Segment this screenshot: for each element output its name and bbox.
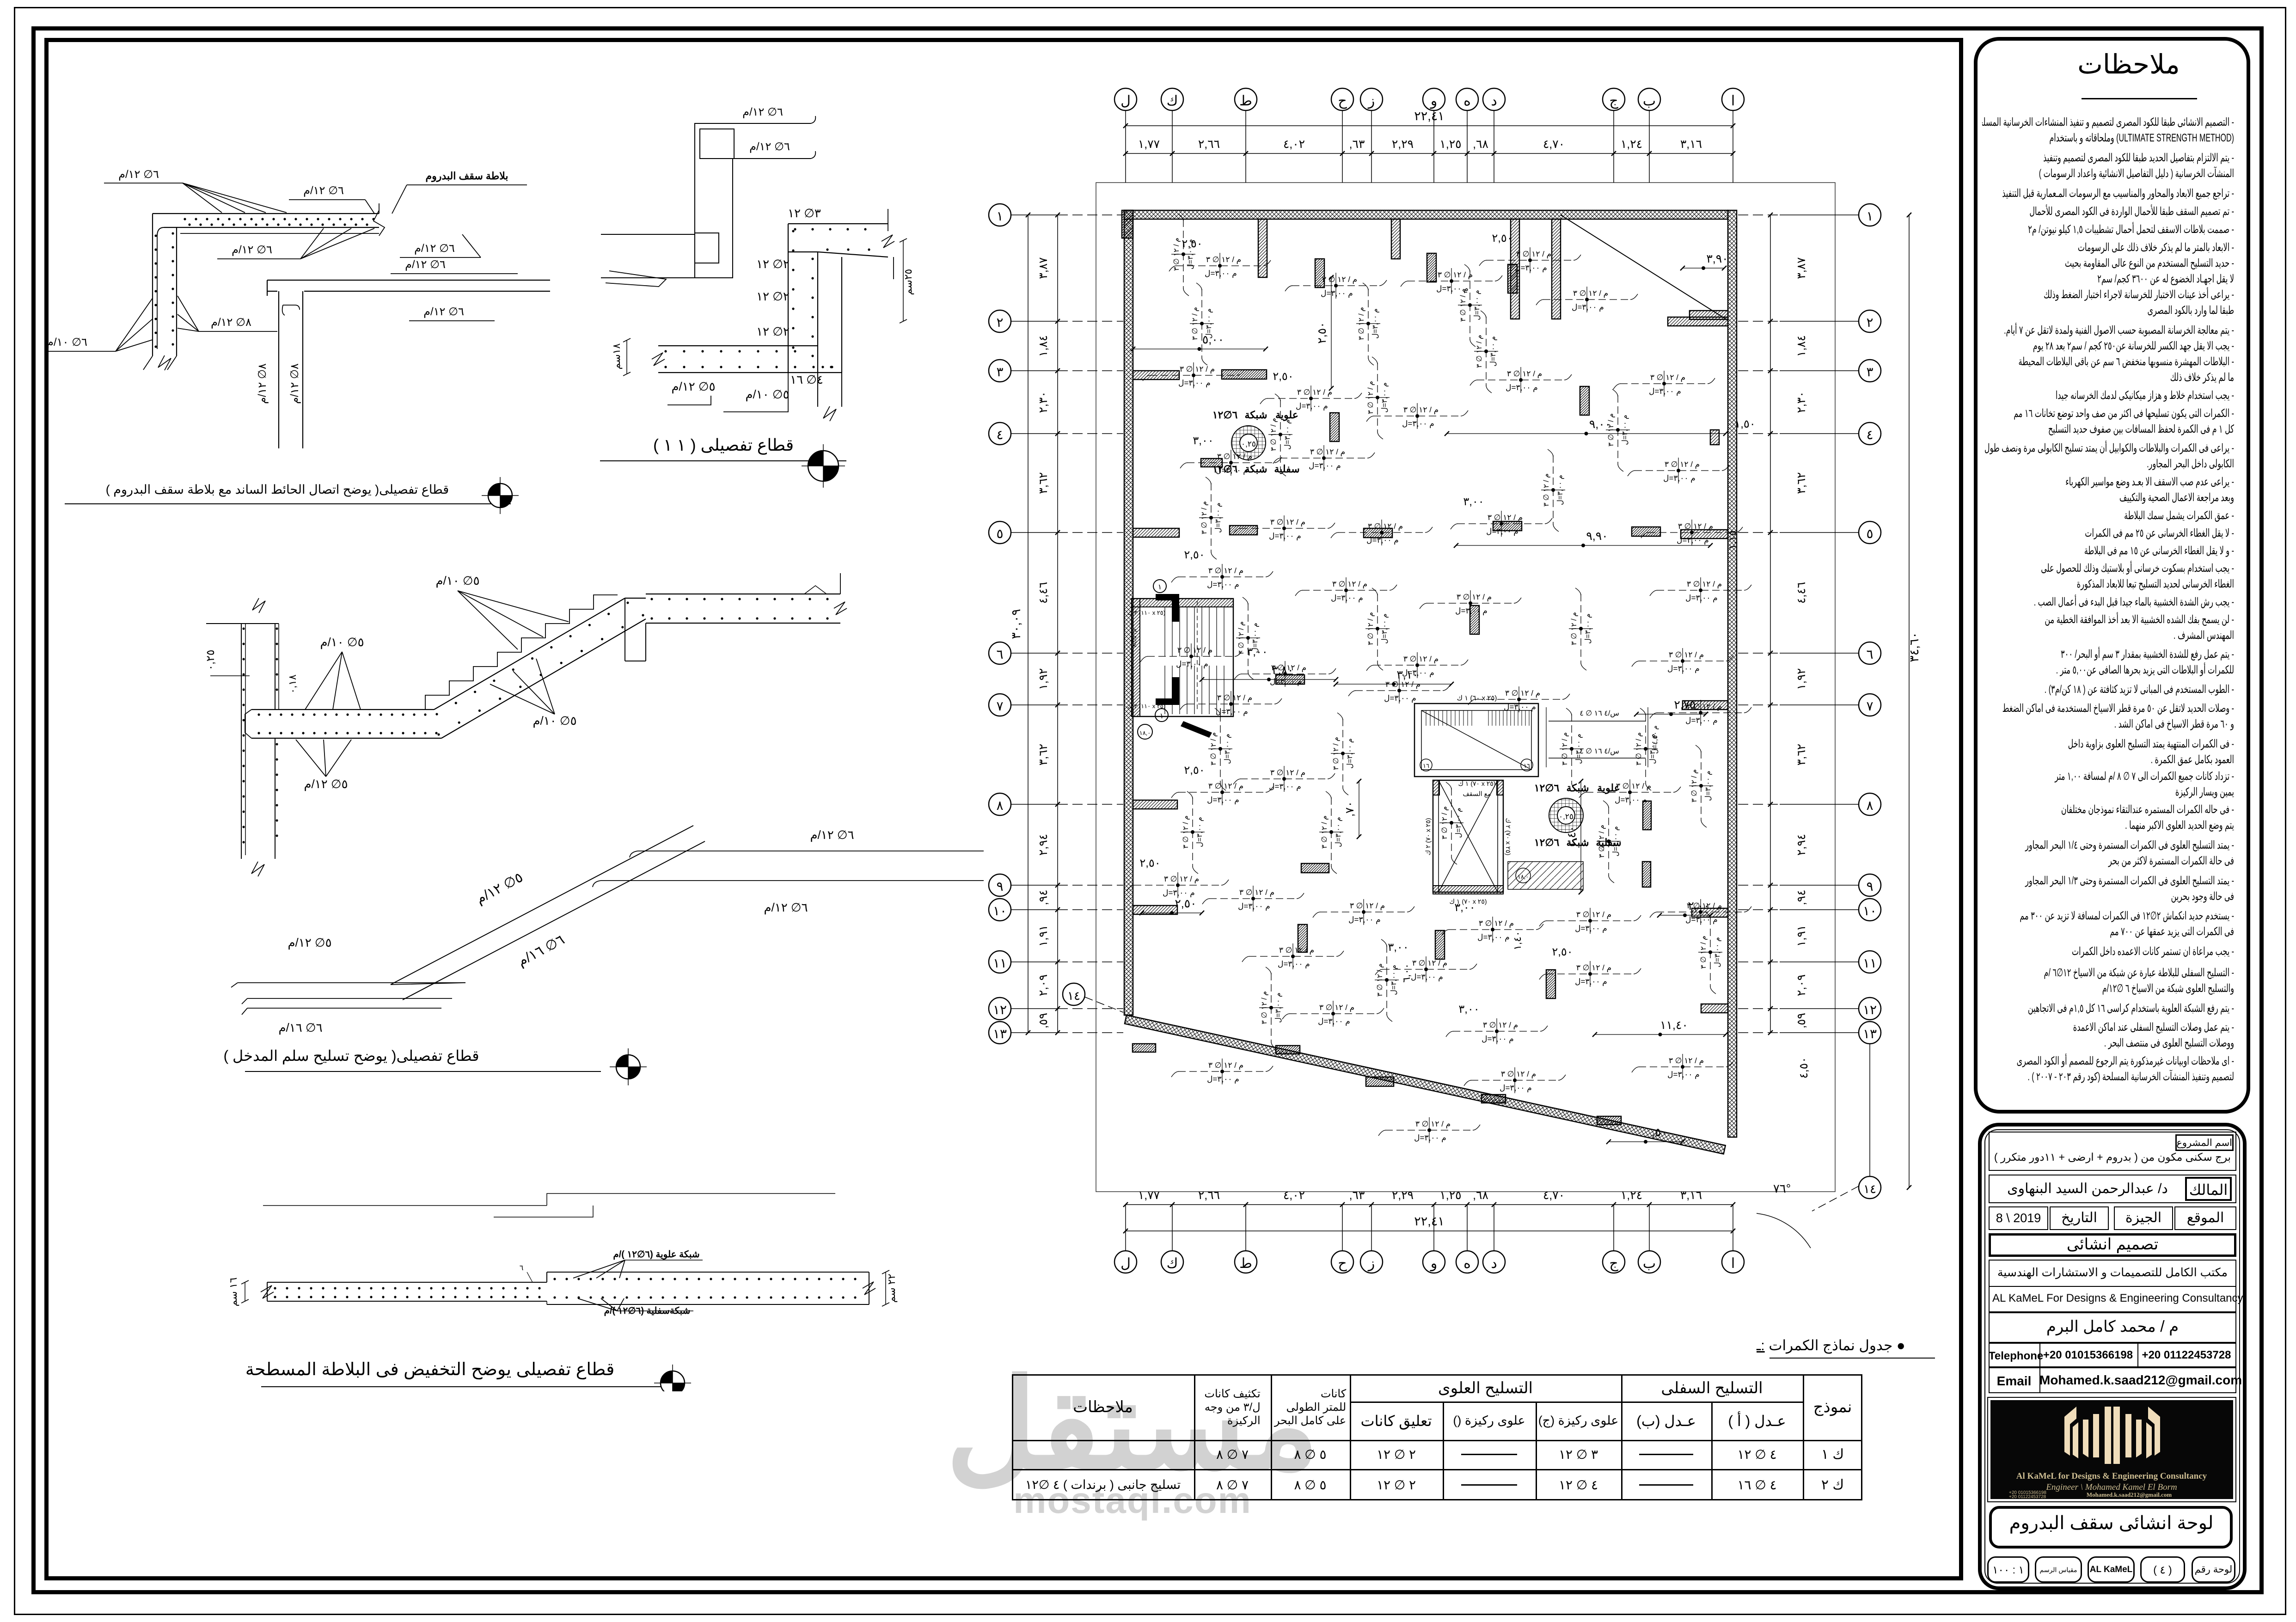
svg-text:٤,٤٦: ٤,٤٦	[1795, 582, 1808, 604]
svg-text:١,٩٢: ١,٩٢	[1037, 668, 1050, 690]
svg-text:‭٣ ∅ ١٢ / م‬: ‭٣ ∅ ١٢ / م‬	[1507, 369, 1542, 379]
svg-text:‭٣ ∅ ١٢ / م‬: ‭٣ ∅ ١٢ / م‬	[1501, 1070, 1536, 1079]
svg-text:‭ل=٣,٠٠ م‬: ‭ل=٣,٠٠ م‬	[1309, 461, 1341, 471]
svg-text:‭ل=٣,٠٠ م‬: ‭ل=٣,٠٠ م‬	[1685, 594, 1718, 603]
svg-text:٥: ٥	[1866, 526, 1873, 541]
svg-text:٣: ٣	[996, 365, 1003, 379]
svg-text:علوية: علوية	[1275, 409, 1298, 421]
svg-text:١٢: ١٢	[993, 1003, 1007, 1017]
svg-text:‭٣ ∅ ١٢ / م‬: ‭٣ ∅ ١٢ / م‬	[1415, 1120, 1451, 1129]
svg-text:‭٣ ∅ ١٢ / م‬: ‭٣ ∅ ١٢ / م‬	[1367, 612, 1375, 645]
svg-text:‭٣ ∅ ١٢ / م‬: ‭٣ ∅ ١٢ / م‬	[1403, 655, 1439, 664]
svg-text:‭٣ ∅ ١٢ / م‬: ‭٣ ∅ ١٢ / م‬	[1573, 289, 1608, 298]
svg-text:‭م/١٠ ∅٥‬: ‭م/١٠ ∅٥‬	[745, 387, 789, 402]
svg-text:‭ل=٣,٠٠ م‬: ‭ل=٣,٠٠ م‬	[1455, 606, 1488, 616]
svg-text:,٩٤: ,٩٤	[1795, 890, 1808, 906]
svg-text:‭٣ ∅ ١٢ / م‬: ‭٣ ∅ ١٢ / م‬	[1650, 373, 1685, 382]
svg-text:‭٣ ∅ ١٢ / م‬: ‭٣ ∅ ١٢ / م‬	[1350, 901, 1385, 911]
svg-text:٠,٢٥: ٠,٢٥	[1241, 440, 1256, 448]
svg-text:٣,٦٢: ٣,٦٢	[1795, 472, 1808, 494]
svg-text:‭٣ ∅ ١٢ / م‬: ‭٣ ∅ ١٢ / م‬	[1598, 825, 1606, 858]
svg-text:٢,٥٠: ٢,٥٠	[1552, 946, 1573, 958]
svg-text:‭م/١٢ ∅٨‬: ‭م/١٢ ∅٨‬	[256, 363, 269, 404]
svg-text:‭ل=٣,٠٠ م‬: ‭ل=٣,٠٠ م‬	[1284, 419, 1292, 450]
svg-text:قطاع تفصيلى( يوضح تسليح سلم ا: قطاع تفصيلى( يوضح تسليح سلم المدخل )	[223, 1047, 479, 1065]
svg-text:٢: ٢	[996, 315, 1003, 330]
svg-text:‭ل=٣,٠٠ م‬: ‭ل=٣,٠٠ م‬	[1381, 382, 1389, 413]
svg-text:‭٣ ∅ ١٢ / م‬: ‭٣ ∅ ١٢ / م‬	[1687, 580, 1722, 589]
svg-text:ح: ح	[1338, 93, 1347, 109]
svg-text:‭ل=٣,٠٠ م‬: ‭ل=٣,٠٠ م‬	[1515, 263, 1547, 273]
svg-text:١,٧٧: ١,٧٧	[1138, 1189, 1160, 1202]
svg-text:٢,٣٠: ٢,٣٠	[1795, 391, 1808, 413]
svg-text:٦: ٦	[1866, 647, 1873, 661]
svg-text:٢,٩٤: ٢,٩٤	[1037, 834, 1050, 856]
svg-text:‭٣ ∅ ١٢ / م‬: ‭٣ ∅ ١٢ / م‬	[1270, 418, 1278, 451]
svg-text:١,٩١: ١,٩١	[1037, 925, 1050, 947]
svg-text:١٠: ١٠	[1863, 904, 1877, 918]
svg-text:٢,٩٤: ٢,٩٤	[1795, 834, 1808, 856]
svg-text:‭ل=٣,٠٠ م‬: ‭ل=٣,٠٠ م‬	[1482, 1034, 1514, 1044]
svg-text:ز: ز	[1367, 93, 1375, 109]
svg-text:‭٣ ∅ ١٢ / م‬: ‭٣ ∅ ١٢ / م‬	[1669, 650, 1704, 660]
svg-text:‭١٢∅٦‬: ‭١٢∅٦‬	[1534, 782, 1560, 794]
svg-text:‭٣ ∅ ١٢ / م‬: ‭٣ ∅ ١٢ / م‬	[1570, 612, 1578, 645]
svg-text:شبكة: شبكة	[1244, 463, 1267, 475]
svg-text:‭٣ ∅ ١٢ / م‬: ‭٣ ∅ ١٢ / م‬	[1516, 250, 1551, 259]
svg-text:‭٣ ∅ ١٢ / م‬: ‭٣ ∅ ١٢ / م‬	[1208, 1061, 1243, 1070]
svg-text:‭٣ ∅ ١٢ / م‬: ‭٣ ∅ ١٢ / م‬	[1678, 522, 1713, 531]
svg-text:‭م/١٢ ∅٦‬: ‭م/١٢ ∅٦‬	[423, 306, 464, 318]
svg-text:١٤: ١٤	[1067, 989, 1080, 1003]
svg-text:‭م/١٢ ∅٥‬: ‭م/١٢ ∅٥‬	[288, 936, 331, 950]
svg-text:‭ل=٣,٠٠ م‬: ‭ل=٣,٠٠ م‬	[1178, 379, 1211, 388]
svg-text:‭م/١٢ ∅٨‬: ‭م/١٢ ∅٨‬	[211, 316, 251, 329]
svg-text:١: ١	[1866, 209, 1873, 223]
svg-text:‭٣ ∅ ١٢ / م‬: ‭٣ ∅ ١٢ / م‬	[1367, 381, 1375, 414]
svg-text:,٦٨: ,٦٨	[1473, 1189, 1488, 1202]
svg-text:٢٢,٤١: ٢٢,٤١	[1414, 109, 1445, 123]
svg-text:‭م/١٢ ∅٥‬: ‭م/١٢ ∅٥‬	[304, 777, 348, 791]
svg-text:٦: ٦	[520, 1264, 524, 1272]
svg-text:٢,٥٠: ٢,٥٠	[1139, 857, 1160, 869]
svg-text:٢٢,٤١: ٢٢,٤١	[1414, 1214, 1445, 1228]
svg-text:‭٣ ∅ ١٢ / م‬: ‭٣ ∅ ١٢ / م‬	[1332, 580, 1367, 589]
svg-text:‭ل=٣,٠٠ م‬: ‭ل=٣,٠٠ م‬	[1348, 915, 1381, 924]
svg-text:‭٣ ∅ ١٢ / م‬: ‭٣ ∅ ١٢ / م‬	[1607, 413, 1615, 447]
svg-text:ه: ه	[1463, 93, 1471, 109]
svg-text:‭م/١٢ ∅٦‬: ‭م/١٢ ∅٦‬	[232, 244, 272, 256]
svg-text:‭م/١٢ ∅٥‬: ‭م/١٢ ∅٥‬	[473, 869, 526, 907]
svg-text:٤: ٤	[1866, 428, 1873, 442]
svg-text:‭م/١٦ ∅٦‬: ‭م/١٦ ∅٦‬	[278, 1021, 322, 1035]
svg-text:٣,٦٢: ٣,٦٢	[1037, 472, 1050, 494]
svg-text:١٦ سم: ١٦ سم	[227, 1278, 239, 1307]
svg-text:قطاع تفصيلى ( ١ ١ ): قطاع تفصيلى ( ١ ١ )	[653, 435, 794, 455]
svg-text:٤: ٤	[996, 428, 1003, 442]
svg-text:‭ل=٣,٠٠ م‬: ‭ل=٣,٠٠ م‬	[1575, 924, 1607, 933]
svg-text:‭٣ ∅ ١٢ / م‬: ‭٣ ∅ ١٢ / م‬	[1217, 693, 1252, 703]
svg-text:ط: ط	[1239, 93, 1252, 109]
svg-text:٤,٧٠: ٤,٧٠	[1543, 1189, 1565, 1202]
svg-text:٣٤,٦٠: ٣٤,٦٠	[1907, 632, 1921, 662]
svg-text:‭١٢∅٦‬: ‭١٢∅٦‬	[1212, 409, 1238, 421]
svg-text:٢,٥٠: ٢,٥٠	[1273, 370, 1293, 383]
svg-text:٢,٣٠: ٢,٣٠	[1037, 391, 1050, 413]
svg-text:‭ك ٣ (١١٠ x ٢٥)‬: ‭ك ٣ (١١٠ x ٢٥)‬	[1127, 703, 1165, 710]
svg-text:‭ل=٣,٠٠ م‬: ‭ل=٣,٠٠ م‬	[1390, 965, 1398, 995]
svg-text:ب: ب	[1643, 1256, 1656, 1271]
svg-text:‭ل=٣,٠٠ م‬: ‭ل=٣,٠٠ م‬	[1270, 677, 1302, 686]
svg-text:‭٣ ∅ ١٢ / م‬: ‭٣ ∅ ١٢ / م‬	[1459, 288, 1467, 322]
svg-text:‭م/١٠ ∅٥‬: ‭م/١٠ ∅٥‬	[320, 635, 364, 649]
svg-text:‭٣ ∅ ١٢ / م‬: ‭٣ ∅ ١٢ / م‬	[1665, 460, 1700, 469]
svg-text:‭م/١٢ ∅٦‬: ‭م/١٢ ∅٦‬	[810, 828, 854, 842]
svg-text:‭٤ ∅ ١٦ ٤/س‬: ‭٤ ∅ ١٦ ٤/س‬	[1580, 747, 1619, 755]
svg-text:٣,٦٢: ٣,٦٢	[1037, 744, 1050, 765]
svg-text:١,٢٥: ١,٢٥	[1439, 138, 1461, 151]
svg-text:‭ل=٣,٠٠ م‬: ‭ل=٣,٠٠ م‬	[1187, 239, 1194, 269]
svg-text:‭ل=٣,٠٠ م‬: ‭ل=٣,٠٠ م‬	[1504, 703, 1536, 712]
svg-text:٩: ٩	[1866, 879, 1873, 894]
svg-text:‭ل=٣,٠٠ م‬: ‭ل=٣,٠٠ م‬	[1402, 668, 1434, 678]
svg-text:٦: ٦	[996, 647, 1003, 661]
svg-text:‭ل=٣,٠٠ م‬: ‭ل=٣,٠٠ م‬	[1176, 660, 1208, 669]
svg-text:‭ل=٣,٠٠ م‬: ‭ل=٣,٠٠ م‬	[1685, 716, 1718, 725]
svg-text:بلاطة سقف البدروم: بلاطة سقف البدروم	[426, 170, 508, 182]
svg-text:‭٣ ∅ ١٢ / م‬: ‭٣ ∅ ١٢ / م‬	[1208, 566, 1243, 575]
svg-text:‭م/١٢ ∅٦‬: ‭م/١٢ ∅٦‬	[118, 168, 159, 181]
svg-text:‭ل=٣,٠٠ م‬: ‭ل=٣,٠٠ م‬	[1667, 1070, 1700, 1079]
svg-text:‭٣ ∅ ١٢ / م‬: ‭٣ ∅ ١٢ / م‬	[1208, 782, 1243, 791]
svg-text:‭ل=٣,٠٠ م‬: ‭ل=٣,٠٠ م‬	[1381, 613, 1389, 644]
svg-text:١,٢٤: ١,٢٤	[1621, 138, 1642, 151]
svg-text:٣,٨٧: ٣,٨٧	[1795, 257, 1808, 279]
svg-text:قطاع تفصيلى( يوضح اتصال الحائ: قطاع تفصيلى( يوضح اتصال الحائط الساند مع…	[106, 483, 449, 497]
svg-text:شبكة علوية (‭١٢∅٦‬ )/م: شبكة علوية (‭١٢∅٦‬ )/م	[613, 1249, 699, 1260]
svg-text:‭٣ ∅ ١٢ / م‬: ‭٣ ∅ ١٢ / م‬	[1476, 335, 1483, 368]
svg-text:Engineer \ Mohamed Kamel El Bo: Engineer \ Mohamed Kamel El Borm	[2045, 1482, 2177, 1492]
svg-text:١٦: ١٦	[1423, 762, 1429, 769]
svg-text:‭٣ ∅ ١٢ / م‬: ‭٣ ∅ ١٢ / م‬	[1441, 806, 1449, 839]
svg-text:ا: ا	[1731, 1256, 1735, 1271]
svg-text:٢,٢٩: ٢,٢٩	[1392, 138, 1414, 151]
svg-text:‭ل=٣,٠٠ م‬: ‭ل=٣,٠٠ م‬	[1704, 771, 1712, 801]
svg-text:‭٣ ∅ ١٢ / م‬: ‭٣ ∅ ١٢ / م‬	[1271, 663, 1306, 673]
svg-text:‭٣ ∅ ١٢ / م‬: ‭٣ ∅ ١٢ / م‬	[1322, 275, 1357, 284]
svg-text:د: د	[1491, 93, 1497, 109]
svg-text:ب: ب	[1643, 93, 1656, 109]
svg-text:١,٢٥: ١,٢٥	[1439, 1189, 1461, 1202]
svg-text:١,٨٤: ١,٨٤	[1037, 335, 1050, 357]
svg-text:‭ل=٣,٠٠ م‬: ‭ل=٣,٠٠ م‬	[1473, 290, 1481, 320]
svg-text:١,٨٤: ١,٨٤	[1795, 335, 1808, 357]
svg-text:٩,٩٠: ٩,٩٠	[1586, 530, 1608, 543]
svg-text:٠,٢٥: ٠,٢٥	[204, 649, 217, 670]
svg-text:‭ل=٣,٠٠ م‬: ‭ل=٣,٠٠ م‬	[1214, 502, 1222, 533]
svg-text:‭ل=٣,٠٠ م‬: ‭ل=٣,٠٠ م‬	[1321, 289, 1353, 298]
svg-text:,٥٩: ,٥٩	[1795, 1013, 1808, 1028]
svg-text:Al KaMeL for Designs & Enginee: Al KaMeL for Designs & Engineering Consu…	[2016, 1471, 2207, 1481]
svg-text:‭م/١٠ ∅٥‬: ‭م/١٠ ∅٥‬	[435, 574, 479, 588]
svg-text:‭ك ١ (٧٠ x ٢٥)‬: ‭ك ١ (٧٠ x ٢٥)‬	[1458, 780, 1495, 787]
svg-text:١٣: ١٣	[1863, 1027, 1877, 1041]
svg-text:٢,٥٠: ٢,٥٠	[1175, 897, 1196, 910]
svg-text:ك: ك	[1167, 93, 1178, 109]
svg-text:‭٣ ∅ ١٢ / م‬: ‭٣ ∅ ١٢ / م‬	[1206, 255, 1241, 264]
svg-text:‭ل=٣,٠٠ م‬: ‭ل=٣,٠٠ م‬	[1486, 527, 1518, 536]
svg-text:‭ل=٣,٠٠ م‬: ‭ل=٣,٠٠ م‬	[1346, 738, 1354, 769]
svg-text:ح: ح	[1338, 1256, 1347, 1272]
svg-text:‭٣ ∅ ١٢ / م‬: ‭٣ ∅ ١٢ / م‬	[1239, 888, 1274, 897]
svg-text:١: ١	[1160, 712, 1164, 720]
svg-text:‭٣ ∅ ١٢ / م‬: ‭٣ ∅ ١٢ / م‬	[1321, 815, 1329, 849]
svg-text:‭٤ ∅ ١٦ ٤/س‬: ‭٤ ∅ ١٦ ٤/س‬	[1580, 710, 1619, 717]
svg-text:‭ل=٣,٠٠ م‬: ‭ل=٣,٠٠ م‬	[1489, 336, 1497, 367]
svg-text:‭٣ ∅ ١٢ / م‬: ‭٣ ∅ ١٢ / م‬	[1310, 447, 1345, 457]
svg-text:‭١٦ ∅٤‬: ‭١٦ ∅٤‬	[790, 373, 823, 386]
svg-text:‭ل=٣,٠٠ م‬: ‭ل=٣,٠٠ م‬	[1572, 303, 1604, 312]
svg-text:١,٤٠: ١,٤٠	[1565, 826, 1578, 847]
svg-text:ج: ج	[1609, 93, 1618, 109]
svg-text:ز: ز	[1367, 1256, 1375, 1272]
svg-text:٢,٦٦: ٢,٦٦	[1198, 138, 1220, 151]
svg-text:‭٣ ∅ ١٢ / م‬: ‭٣ ∅ ١٢ / م‬	[1479, 919, 1514, 928]
svg-text:‭ل=٣,٠٠ م‬: ‭ل=٣,٠٠ م‬	[1207, 796, 1239, 805]
svg-text:‭ل=٤,٥٠ م‬: ‭ل=٤,٥٠ م‬	[1651, 725, 1659, 753]
svg-text:‭ل=٣,٠٠ م‬: ‭ل=٣,٠٠ م‬	[1274, 992, 1282, 1023]
svg-text:‭٣ ∅ ١٢ / م‬: ‭٣ ∅ ١٢ / م‬	[1457, 593, 1492, 602]
svg-text:‭٣ ∅ ١٢ / م‬: ‭٣ ∅ ١٢ / م‬	[1270, 518, 1305, 527]
svg-text:٣: ٣	[1866, 365, 1873, 379]
svg-text:١,٧٧: ١,٧٧	[1138, 138, 1160, 151]
svg-text:‭٣ ∅ ١٢ / م‬: ‭٣ ∅ ١٢ / م‬	[1191, 307, 1199, 340]
svg-text:‭ل=٣,٠٠ م‬: ‭ل=٣,٠٠ م‬	[1335, 817, 1342, 847]
svg-text:‭ك ٣ (١١٠ x ٢٥)‬: ‭ك ٣ (١١٠ x ٢٥)‬	[1127, 609, 1165, 616]
svg-text:٣,٠٠: ٣,٠٠	[1388, 941, 1408, 954]
svg-text:‭ل=٣,٠٠ م‬: ‭ل=٣,٠٠ م‬	[1663, 474, 1696, 483]
svg-text:١,١٥: ١,١٥	[1727, 530, 1738, 550]
svg-text:‭٣ ∅ ١٢ / م‬: ‭٣ ∅ ١٢ / م‬	[1200, 501, 1208, 534]
svg-text:‭ل=٣,٠٠ م‬: ‭ل=٣,٠٠ م‬	[1216, 466, 1248, 475]
svg-text:‭٣ ∅ ١٢ / م‬: ‭٣ ∅ ١٢ / م‬	[1182, 815, 1190, 849]
svg-text:‭ل=٣,٠٠ م‬: ‭ل=٣,٠٠ م‬	[1205, 269, 1237, 278]
svg-text:‭ل=٣,٠٠ م‬: ‭ل=٣,٠٠ م‬	[1269, 782, 1301, 791]
svg-text:١١: ١١	[1863, 956, 1877, 970]
svg-text:١٦: ١٦	[1524, 762, 1530, 769]
svg-text:‭٣ ∅ ١٢ / م‬: ‭٣ ∅ ١٢ / م‬	[1669, 1056, 1704, 1065]
svg-text:ا: ا	[1731, 93, 1735, 109]
svg-text:‭٣ ∅ ١٢ / م‬: ‭٣ ∅ ١٢ / م‬	[1279, 946, 1314, 955]
svg-text:‭م/١٢ ∅٦‬: ‭م/١٢ ∅٦‬	[742, 106, 783, 118]
svg-text:‭ل=٣,٠٠ م‬: ‭ل=٣,٠٠ م‬	[1411, 973, 1443, 982]
svg-text:‭ل=٣,٠٠ م‬: ‭ل=٣,٠٠ م‬	[1205, 308, 1213, 339]
svg-text:٣,٠٠: ٣,٠٠	[1463, 496, 1484, 508]
svg-text:‭ك ٢ (٧٠ x ٢٥)‬: ‭ك ٢ (٧٠ x ٢٥)‬	[1505, 818, 1512, 855]
svg-text:١٣: ١٣	[993, 1027, 1007, 1041]
svg-text:‭ل=٣,٠٠ م‬: ‭ل=٣,٠٠ م‬	[1612, 826, 1620, 857]
svg-text:‭ل=٣,٠٠ م‬: ‭ل=٣,٠٠ م‬	[1556, 475, 1564, 505]
svg-text:٣,٩٠: ٣,٩٠	[1706, 252, 1728, 265]
svg-text:‭ل=٣,٠٠ م‬: ‭ل=٣,٠٠ م‬	[1371, 308, 1379, 339]
svg-text:١١,٤٠: ١١,٤٠	[1660, 1019, 1688, 1032]
svg-text:+20 01122453728: +20 01122453728	[2009, 1494, 2046, 1499]
svg-text:‭ل=٣,٠٠ م‬: ‭ل=٣,٠٠ م‬	[1251, 623, 1259, 653]
svg-text:‭٣ ∅ ١٢ / م‬: ‭٣ ∅ ١٢ / م‬	[1368, 522, 1403, 531]
svg-text:‭ل=٣,٠٠ م‬: ‭ل=٣,٠٠ م‬	[1649, 387, 1681, 396]
svg-text:١: ١	[996, 209, 1003, 223]
svg-text:‭م/١٢ ∅٦‬: ‭م/١٢ ∅٦‬	[749, 141, 790, 153]
svg-text:ط: ط	[1239, 1256, 1252, 1271]
svg-text:‭ك ١ (٦٠ x ٢٥)‬: ‭ك ١ (٦٠ x ٢٥)‬	[1457, 694, 1497, 702]
svg-text:‭٣ ∅ ١٢ / م‬: ‭٣ ∅ ١٢ / م‬	[1385, 680, 1420, 689]
svg-text:‭٣ ∅ ١٢ / م‬: ‭٣ ∅ ١٢ / م‬	[1164, 875, 1199, 884]
svg-text:‭م/١٢ ∅٦‬: ‭م/١٢ ∅٦‬	[405, 258, 446, 271]
svg-text:١٤: ١٤	[1863, 1182, 1876, 1196]
svg-text:‭ل=٣,٠٠ م‬: ‭ل=٣,٠٠ م‬	[1278, 960, 1310, 969]
svg-text:ج: ج	[1609, 1256, 1618, 1272]
svg-text:٩: ٩	[996, 879, 1003, 894]
svg-text:٢,٥٠: ٢,٥٠	[1184, 764, 1205, 777]
svg-text:‭٣ ∅ ١٢ / م‬: ‭٣ ∅ ١٢ / م‬	[1173, 238, 1181, 271]
svg-text:‭١٢ ∅٢‬: ‭١٢ ∅٢‬	[756, 289, 790, 303]
svg-text:١١: ١١	[993, 956, 1007, 970]
svg-text:‭١٢ ∅٣‬: ‭١٢ ∅٣‬	[788, 206, 821, 220]
svg-text:‭ل=٣,٠٠ م‬: ‭ل=٣,٠٠ م‬	[1575, 977, 1607, 986]
svg-text:‭م/١٢ ∅٦‬: ‭م/١٢ ∅٦‬	[414, 242, 455, 255]
svg-text:١٨,٠: ١٨,٠	[1518, 873, 1529, 880]
svg-text:‭٣ ∅ ١٢ / م‬: ‭٣ ∅ ١٢ / م‬	[1543, 473, 1550, 507]
svg-text:‭م/١٢ ∅٥‬: ‭م/١٢ ∅٥‬	[671, 379, 715, 394]
svg-text:‭٣ ∅ ١٢ / م‬: ‭٣ ∅ ١٢ / م‬	[1616, 782, 1651, 791]
svg-text:‭ل=٣,٠٠ م‬: ‭ل=٣,٠٠ م‬	[1318, 1017, 1350, 1026]
svg-text:‭٣ ∅ ١٢ / م‬: ‭٣ ∅ ١٢ / م‬	[1177, 646, 1212, 655]
svg-text:٣٠,٠٩: ٣٠,٠٩	[1009, 609, 1023, 639]
svg-text:قطاع تفصيلى يوضح التخفيض فى ال: قطاع تفصيلى يوضح التخفيض فى البلاطة المس…	[245, 1360, 615, 1380]
svg-text:٤,٠٢: ٤,٠٢	[1283, 1189, 1305, 1202]
svg-text:٢,٥٠: ٢,٥٠	[1492, 232, 1512, 245]
svg-text:مع السقف: مع السقف	[1463, 790, 1491, 798]
svg-text:‭٣ ∅ ١٢ / م‬: ‭٣ ∅ ١٢ / م‬	[1505, 689, 1540, 698]
svg-text:,٥٩: ,٥٩	[1037, 1013, 1050, 1028]
svg-text:‭ل=٣,٠٠ م‬: ‭ل=٣,٠٠ م‬	[1615, 796, 1647, 805]
svg-text:‭٣ ∅ ١٢ / م‬: ‭٣ ∅ ١٢ / م‬	[1261, 991, 1268, 1024]
svg-text:١٢: ١٢	[1863, 1003, 1877, 1017]
svg-text:‭م/١٠ ∅٦‬: ‭م/١٠ ∅٦‬	[47, 336, 87, 349]
svg-text:‭٣ ∅ ١٢ / م‬: ‭٣ ∅ ١٢ / م‬	[1403, 405, 1439, 415]
svg-text:‭٣ ∅ ١٢ / م‬: ‭٣ ∅ ١٢ / م‬	[1332, 737, 1340, 770]
svg-text:‭٣ ∅ ١٢ / م‬: ‭٣ ∅ ١٢ / م‬	[1376, 963, 1384, 997]
svg-text:‭٣ ∅ ١٢ / م‬: ‭٣ ∅ ١٢ / م‬	[1438, 270, 1473, 280]
svg-text:‭٨∅٥ /م‬: ‭٨∅٥ /م‬	[1131, 629, 1138, 648]
svg-text:شبكة: شبكة	[1244, 409, 1267, 421]
svg-text:٣,١٦: ٣,١٦	[1680, 138, 1702, 151]
svg-text:‭ل=٣,٠٠ م‬: ‭ل=٣,٠٠ م‬	[1677, 536, 1709, 545]
svg-text:٢,٠٩: ٢,٠٩	[1037, 974, 1050, 996]
svg-text:‭٣ ∅ ١٢ / م‬: ‭٣ ∅ ١٢ / م‬	[1217, 452, 1252, 461]
svg-text:سفلية: سفلية	[1274, 463, 1299, 475]
svg-text:‭ل=٣,٠٠ م‬: ‭ل=٣,٠٠ م‬	[1207, 1075, 1239, 1084]
svg-text:ل: ل	[1120, 93, 1131, 109]
svg-text:‭١٢ ∅٢‬: ‭١٢ ∅٢‬	[756, 324, 790, 338]
svg-text:٠,١٨: ٠,١٨	[287, 674, 298, 694]
svg-text:‭ل=٣,٠٠ م‬: ‭ل=٣,٠٠ م‬	[1238, 902, 1270, 911]
svg-text:٨: ٨	[1866, 798, 1873, 813]
svg-text:Mohamed.k.saad212@gmail.com: Mohamed.k.saad212@gmail.com	[2087, 1491, 2172, 1498]
svg-text:١: ١	[1158, 583, 1162, 591]
svg-text:٣,١٦: ٣,١٦	[1680, 1189, 1702, 1202]
svg-text:٧٦°: ٧٦°	[1773, 1181, 1791, 1195]
svg-text:,٥٠: ,٥٠	[1652, 1126, 1667, 1139]
svg-text:‭٣ ∅ ١٢ / م‬: ‭٣ ∅ ١٢ / م‬	[1576, 963, 1611, 973]
svg-text:٨: ٨	[996, 798, 1003, 813]
svg-text:٤,٥٠: ٤,٥٠	[1797, 1057, 1810, 1078]
svg-text:١,٩١: ١,٩١	[1795, 925, 1808, 947]
svg-text:‭م/١٠ ∅٥‬: ‭م/١٠ ∅٥‬	[533, 714, 576, 728]
svg-text:‭ك ٢ (٧٠ x ٢٥)‬: ‭ك ٢ (٧٠ x ٢٥)‬	[1424, 818, 1432, 855]
svg-text:٧: ٧	[1866, 699, 1873, 713]
svg-text:٣,٠٠: ٣,٠٠	[1458, 1003, 1479, 1016]
svg-text:‭ل=٣,٠٠ م‬: ‭ل=٣,٠٠ م‬	[1414, 1133, 1446, 1143]
svg-text:٣,٠٠: ٣,٠٠	[1454, 901, 1475, 914]
svg-text:‭ل=٣,٠٠ م‬: ‭ل=٣,٠٠ م‬	[1163, 888, 1195, 898]
svg-text:٤,٧٠: ٤,٧٠	[1543, 138, 1565, 151]
svg-text:٢: ٢	[1866, 315, 1873, 330]
svg-text:‭٣ ∅ ١٢ / م‬: ‭٣ ∅ ١٢ / م‬	[1635, 732, 1643, 765]
svg-text:‭م/١٢ ∅٦‬: ‭م/١٢ ∅٦‬	[764, 900, 808, 915]
svg-text:‭٣ ∅ ١٢ / م‬: ‭٣ ∅ ١٢ / م‬	[1488, 513, 1523, 522]
svg-text:,٦٣: ,٦٣	[1349, 138, 1365, 151]
svg-text:‭ل=٣,٠٠ م‬: ‭ل=٣,٠٠ م‬	[1366, 536, 1399, 545]
svg-text:١٨سم: ١٨سم	[611, 343, 623, 369]
svg-text:١,٤٠: ١,٤٠	[1512, 931, 1523, 950]
svg-text:‭ل=٣,٠٠ م‬: ‭ل=٣,٠٠ م‬	[1667, 664, 1700, 673]
svg-text:٢,٦٦: ٢,٦٦	[1198, 1189, 1220, 1202]
svg-text:‭٣ ∅ ١٢ / م‬: ‭٣ ∅ ١٢ / م‬	[1690, 769, 1698, 802]
svg-text:‭٣ ∅ ١٢ / م‬: ‭٣ ∅ ١٢ / م‬	[1358, 307, 1365, 340]
svg-text:‭٣ ∅ ١٢ / م‬: ‭٣ ∅ ١٢ / م‬	[1237, 621, 1245, 655]
svg-text:‭٣ ∅ ١٢ / م‬: ‭٣ ∅ ١٢ / م‬	[1297, 388, 1332, 397]
svg-text:١,٢٤: ١,٢٤	[1621, 1189, 1642, 1202]
svg-text:‭م/١٢ ∅٦‬: ‭م/١٢ ∅٦‬	[303, 184, 344, 197]
svg-text:ك: ك	[1167, 1256, 1178, 1271]
svg-text:‭٣ ∅ ١٢ / م‬: ‭٣ ∅ ١٢ / م‬	[1561, 732, 1569, 765]
svg-text:٠,٢٥: ٠,٢٥	[1559, 812, 1574, 821]
svg-text:‭٣ ∅ ١٢ / م‬: ‭٣ ∅ ١٢ / م‬	[1576, 910, 1611, 919]
svg-text:‭٣ ∅ ١٢ / م‬: ‭٣ ∅ ١٢ / م‬	[1687, 702, 1722, 711]
svg-text:‭٣ ∅ ١٢ / م‬: ‭٣ ∅ ١٢ / م‬	[1180, 365, 1215, 374]
svg-text:٧: ٧	[996, 699, 1003, 713]
svg-text:‭ل=٣,٠٠ م‬: ‭ل=٣,٠٠ م‬	[1584, 613, 1592, 644]
svg-text:١,٥٠: ١,٥٠	[1734, 418, 1755, 430]
svg-text:‭ل=٣,٠٠ م‬: ‭ل=٣,٠٠ م‬	[1384, 694, 1416, 703]
svg-text:و: و	[1430, 1256, 1438, 1272]
svg-text:‭م/١٢ ∅٨‬: ‭م/١٢ ∅٨‬	[288, 363, 301, 404]
svg-text:٢٥سم: ٢٥سم	[902, 269, 914, 295]
svg-text:‭ل=٣,٠٠ م‬: ‭ل=٣,٠٠ م‬	[1402, 419, 1434, 428]
svg-text:‭ل=٣,٠٠ م‬: ‭ل=٣,٠٠ م‬	[1455, 808, 1463, 838]
svg-text:‭٣ ∅ ١٢ / م‬: ‭٣ ∅ ١٢ / م‬	[1700, 936, 1708, 969]
svg-text:‭م/١٦ ∅٦‬: ‭م/١٦ ∅٦‬	[515, 932, 567, 970]
svg-text:٤,٤٦: ٤,٤٦	[1037, 582, 1050, 604]
svg-text:١٠: ١٠	[993, 904, 1007, 918]
svg-text:٢,٥٠: ٢,٥٠	[1184, 549, 1205, 561]
svg-text:‭ل=٣,٠٠ م‬: ‭ل=٣,٠٠ م‬	[1207, 580, 1239, 589]
svg-text:٢,٥٠: ٢,٥٠	[1316, 322, 1329, 343]
svg-text:‭ل=٣,٠٠ م‬: ‭ل=٣,٠٠ م‬	[1296, 402, 1328, 411]
svg-text:‭ل=٣,٠٠ م‬: ‭ل=٣,٠٠ م‬	[1506, 383, 1538, 392]
svg-text:‭١٢∅٦‬: ‭١٢∅٦‬	[1534, 837, 1560, 848]
